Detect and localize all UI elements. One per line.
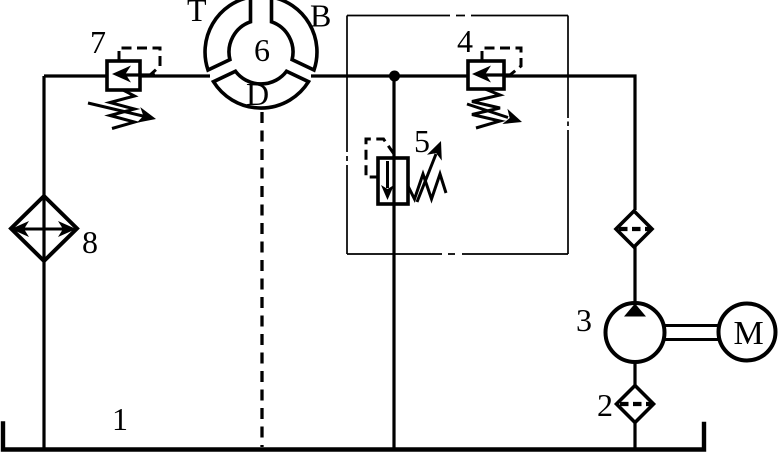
svg-text:3: 3 [576,302,592,338]
dashed drain line from rotary valve D port to tank [260,112,263,447]
svg-text:T: T [187,0,207,28]
motor M [719,304,776,361]
svg-text:6: 6 [254,32,270,68]
filter above pump [616,211,652,247]
rotary valve 6 segment T [205,0,250,70]
valve 5 spring [408,174,446,199]
enclosure box left side (chain line) [346,16,348,255]
svg-text:2: 2 [597,387,613,423]
wire branch to valve 5 down to tank [392,76,395,449]
svg-text:4: 4 [457,23,473,59]
svg-text:B: B [310,0,331,34]
valve 5 pilot line (dashed) [366,139,394,177]
relief valve 4 pilot line (dashed) [482,48,521,75]
valve 5 adjust arrow [417,141,442,202]
valve 5 internal arrow [381,161,394,200]
wire rotary valve 6 to valve 4 [311,74,468,77]
pump 3 [606,303,665,362]
wire valve7 to rotary valve 6 [140,74,210,77]
relief valve 7 pilot line (dashed) [119,48,160,76]
svg-text:5: 5 [414,123,430,159]
svg-text:8: 8 [82,224,98,260]
enclosure box bottom side (chain line) [347,253,568,255]
svg-text:7: 7 [90,24,106,60]
svg-text:D: D [246,76,269,112]
junction node dot [389,71,400,82]
filter 8 double arrow [11,221,76,237]
relief valve 4 body [468,61,512,89]
tank 1 [3,424,704,450]
relief valve 4 adjust arrow [467,104,522,124]
wire valve 4 to right corner down to filter [504,76,635,210]
valve 5 body [378,158,408,204]
relief valve 7 body [107,61,155,90]
filter 8 (heat exchanger) [11,196,77,261]
relief valve 4 spring [472,89,500,128]
wire left riser to tank [42,76,45,449]
drive shaft double line [664,326,719,340]
wire filter 2 to tank [633,421,636,449]
relief valve 7 adjust arrow [88,103,156,123]
svg-text:M: M [734,315,764,352]
wire pump outlet to filter 2 [633,361,636,386]
filter 2 [617,386,654,423]
relief valve 7 spring [110,90,135,129]
wire main line left segment [44,74,107,77]
rotary valve 6 segment B [272,0,317,70]
wire filter to pump inlet [633,246,636,304]
rotary valve 6 segment D [214,71,309,108]
enclosure box right side (chain line) [567,16,569,255]
svg-text:1: 1 [112,401,128,437]
enclosure box top side (chain line) [347,15,568,17]
